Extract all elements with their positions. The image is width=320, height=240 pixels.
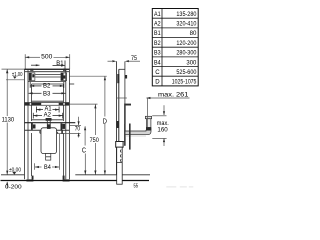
label 0-200 with arrow <box>5 182 22 191</box>
svg-text:120-200: 120-200 <box>176 40 196 47</box>
siphon outlet neck <box>46 154 51 161</box>
side view rail <box>119 61 125 145</box>
side lower wall block <box>116 121 119 128</box>
table row values <box>172 11 197 86</box>
right water connection bolt <box>61 123 66 134</box>
svg-text:80: 80 <box>190 30 197 37</box>
svg-text:1130: 1130 <box>2 117 15 124</box>
svg-text:75: 75 <box>131 55 137 62</box>
dimension 500 <box>25 54 69 69</box>
side wall bracket <box>117 74 119 83</box>
svg-text:0-200: 0-200 <box>5 185 22 191</box>
svg-text:500: 500 <box>41 54 53 61</box>
extension line top left <box>2 68 25 70</box>
svg-text:160: 160 <box>157 126 168 133</box>
svg-text:55: 55 <box>134 184 139 190</box>
svg-text:B2: B2 <box>43 83 51 90</box>
extension line for 750 <box>70 103 98 105</box>
dimension B2 <box>30 82 64 88</box>
dimension 70 <box>69 117 81 138</box>
dimension B3 <box>29 92 66 94</box>
side view wall line <box>116 61 118 175</box>
side drain pipe vertical <box>116 142 123 185</box>
svg-text:D: D <box>155 79 160 86</box>
svg-text:B2: B2 <box>154 40 161 47</box>
left rail <box>25 69 32 179</box>
dimension B4 <box>35 134 60 170</box>
svg-text:A2: A2 <box>44 111 52 118</box>
svg-text:525-600: 525-600 <box>176 69 196 76</box>
left foot <box>26 179 33 181</box>
side support arm <box>125 124 131 150</box>
siphon body <box>39 118 58 154</box>
label max. 261 <box>117 91 190 127</box>
dimension B1 <box>31 61 65 70</box>
svg-text:B3: B3 <box>154 50 161 57</box>
svg-text:70: 70 <box>75 126 81 133</box>
svg-text:320-410: 320-410 <box>176 21 196 28</box>
svg-text:D: D <box>103 118 107 125</box>
frame top bar <box>25 69 75 84</box>
svg-text:B4: B4 <box>44 164 51 171</box>
dimension C <box>82 126 87 174</box>
svg-text:A1: A1 <box>154 11 161 18</box>
table <box>152 9 198 86</box>
inner box bottom line <box>32 100 64 102</box>
dimension A2 <box>33 113 62 119</box>
level mark 0,00 <box>9 167 21 174</box>
level mark +1,00 <box>6 72 25 80</box>
dimension 75 <box>108 55 141 62</box>
svg-text:750: 750 <box>90 137 100 144</box>
svg-text:300: 300 <box>186 59 196 66</box>
svg-text:B4: B4 <box>154 59 161 66</box>
dimension max 160 <box>152 105 169 146</box>
right foot <box>63 179 70 181</box>
dimension 1130 line <box>6 69 8 174</box>
left water connection bolt <box>31 123 36 130</box>
svg-text:max. 261: max. 261 <box>158 91 189 98</box>
floor line 2 (raw floor) <box>1 180 150 182</box>
side water connection tab <box>125 104 131 106</box>
table row labels <box>154 11 161 86</box>
faint logo watermark <box>166 186 193 187</box>
svg-text:C: C <box>155 69 160 76</box>
svg-text:280-300: 280-300 <box>176 50 196 57</box>
dimension 750 <box>90 104 100 174</box>
svg-text:B3: B3 <box>43 90 51 97</box>
side outlet pipe horizontal with elbow <box>125 116 152 136</box>
svg-text:A2: A2 <box>154 21 161 28</box>
dimension A1 <box>36 107 59 113</box>
svg-text:135-280: 135-280 <box>176 11 196 18</box>
svg-text:±1,00: ±1,00 <box>12 72 23 78</box>
mounting plate band <box>25 102 70 105</box>
floor line 1 (finished floor) <box>1 174 150 176</box>
right rail <box>63 69 69 179</box>
left top bracket <box>29 69 35 81</box>
svg-text:C: C <box>82 148 86 155</box>
svg-text:B1: B1 <box>154 30 161 37</box>
side bracket tab <box>125 75 127 79</box>
dimension D <box>103 76 107 174</box>
svg-text:1025-1075: 1025-1075 <box>172 79 197 86</box>
extension line for D <box>70 75 107 77</box>
lower crossbar <box>25 123 81 134</box>
svg-text:B1: B1 <box>56 60 64 67</box>
right top bracket <box>61 69 67 81</box>
